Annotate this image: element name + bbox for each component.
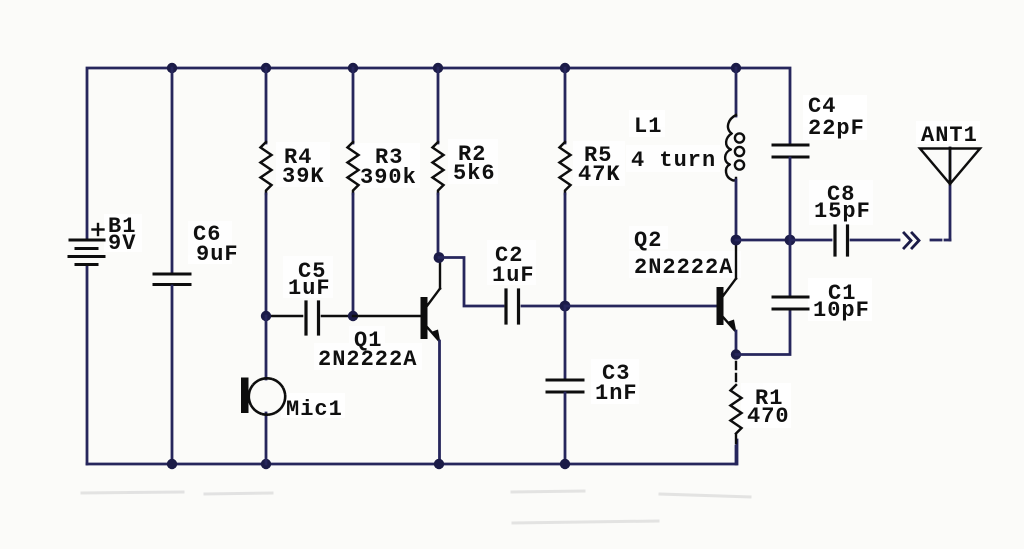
battery B1	[69, 224, 104, 265]
wire emitter Q2 to C1	[736, 310, 790, 355]
svg-text:ANT1: ANT1	[921, 123, 978, 148]
node R3/base Q1	[348, 311, 358, 321]
transistor Q2	[717, 245, 737, 354]
wire R4 node to microphone	[265, 316, 268, 379]
node top R4	[261, 63, 271, 73]
svg-text:2N2222A: 2N2222A	[634, 255, 733, 280]
wire top rail	[87, 68, 790, 239]
node bottom C3	[560, 459, 570, 469]
svg-text:10pF: 10pF	[813, 298, 870, 323]
resistor R4	[261, 68, 272, 316]
resistor R5	[560, 68, 571, 306]
microphone Mic1	[241, 378, 285, 415]
node collector Q2	[731, 235, 742, 246]
node bottom Q1	[434, 459, 444, 469]
svg-text:1uF: 1uF	[492, 263, 535, 288]
transistor Q1	[421, 258, 441, 343]
svg-text:2N2222A: 2N2222A	[318, 347, 417, 372]
svg-text:L1: L1	[634, 114, 662, 139]
svg-text:47K: 47K	[578, 162, 621, 187]
capacitor C2	[506, 290, 565, 323]
capacitor C6	[154, 68, 190, 464]
node emitter Q2	[731, 349, 741, 359]
connector chevrons	[904, 233, 919, 248]
resistor R2	[433, 68, 444, 253]
svg-text:15pF: 15pF	[814, 199, 871, 224]
wire battery to bottom rail	[86, 266, 89, 464]
capacitor C8	[790, 226, 899, 255]
inductor L1	[725, 68, 744, 240]
faint artifact marks	[82, 491, 750, 523]
node right rail	[785, 235, 796, 246]
capacitor C3	[547, 306, 583, 464]
node bottom R4 branch	[261, 459, 271, 469]
node top L1	[731, 63, 741, 73]
antenna ANT1	[920, 148, 980, 240]
node top R3	[348, 63, 358, 73]
capacitor C4	[773, 145, 808, 240]
node top C6	[167, 63, 177, 73]
node R4/C5	[261, 311, 271, 321]
capacitor C1	[773, 240, 808, 309]
capacitor C5	[266, 302, 353, 334]
svg-text:9uF: 9uF	[196, 242, 239, 267]
svg-text:39K: 39K	[282, 164, 325, 189]
wire base Q1	[353, 315, 421, 317]
wire base Q2	[565, 305, 717, 308]
wire collector Q1 to C2	[439, 258, 503, 307]
resistor R1	[731, 362, 742, 464]
svg-text:Mic1: Mic1	[286, 397, 343, 422]
svg-text:22pF: 22pF	[808, 116, 865, 141]
svg-text:5k6: 5k6	[453, 161, 496, 186]
svg-text:4 turn: 4 turn	[631, 148, 716, 173]
wire emitter Q1	[438, 341, 441, 464]
resistor R3	[348, 68, 359, 316]
wire collector Q2 to right rail	[736, 239, 790, 242]
wire microphone to bottom rail	[265, 413, 268, 464]
svg-text:9V: 9V	[108, 231, 136, 256]
node top R5	[560, 63, 570, 73]
svg-text:1uF: 1uF	[288, 276, 331, 301]
wire bottom rail	[87, 440, 737, 464]
svg-text:Q2: Q2	[634, 228, 662, 253]
svg-text:1nF: 1nF	[595, 381, 638, 406]
svg-text:470: 470	[747, 404, 790, 429]
node bottom C6	[167, 459, 177, 469]
svg-text:390k: 390k	[360, 165, 417, 190]
wire to antenna	[931, 239, 941, 242]
node collector Q1	[434, 252, 445, 263]
node C2/R5	[560, 301, 571, 312]
node top R2	[433, 63, 443, 73]
